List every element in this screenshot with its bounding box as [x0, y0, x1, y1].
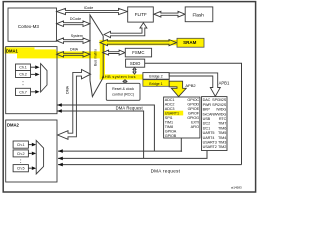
svg-text:Flash: Flash [192, 12, 204, 17]
svg-text:USART2: USART2 [203, 145, 217, 149]
bus matrix shape [90, 15, 103, 97]
svg-text:DMA1: DMA1 [6, 49, 19, 54]
svg-text:GPIOF: GPIOF [188, 112, 200, 116]
outer frame [3, 2, 255, 192]
arrow Ch.7 to arbiter [31, 91, 36, 93]
svg-text:DMA Request: DMA Request [116, 106, 144, 111]
DMA bus arrow (yellow) [57, 52, 90, 58]
svg-text:Bridge 1: Bridge 1 [149, 82, 162, 86]
svg-text:Ch.2: Ch.2 [19, 73, 27, 77]
svg-text:EXTI: EXTI [191, 121, 199, 125]
svg-text:SPI3/I2S: SPI3/I2S [212, 98, 227, 102]
svg-text:TIM1: TIM1 [165, 121, 173, 125]
DMA2 channel Ch.1 [13, 141, 28, 148]
Bridge 1 box (yellow) [143, 80, 169, 87]
SRAM box [177, 38, 204, 47]
svg-text:USB: USB [203, 117, 211, 121]
svg-text:UART5: UART5 [203, 131, 215, 135]
APB2 yellow elbow arrow from Bridge 1 [169, 81, 186, 96]
svg-text:ICode: ICode [84, 6, 94, 10]
svg-text:ADC2: ADC2 [165, 102, 175, 106]
highlighter stroke over DMA arrow [30, 49, 56, 56]
svg-text:Ch.5: Ch.5 [17, 167, 25, 171]
RCC to AHB small double arrow [123, 80, 126, 84]
APB1 pipe from Bridge 2 [169, 73, 220, 96]
ICode bus arrow [57, 8, 128, 14]
svg-text:DMA: DMA [66, 85, 70, 94]
DMA request line 2 (APB1 to DMA1) [57, 111, 144, 158]
svg-text:USART1: USART1 [165, 112, 179, 116]
USART1 highlight [164, 111, 183, 116]
svg-text:FSMC: FSMC [132, 50, 144, 55]
svg-text:Bridge 2: Bridge 2 [149, 75, 162, 79]
svg-text:GPIOG: GPIOG [187, 116, 199, 120]
DMA1 channel Ch.7 [16, 88, 31, 95]
DMA2 bus elbow arrow to bus matrix [58, 70, 91, 140]
svg-text:APB1: APB1 [219, 81, 230, 86]
svg-text:TIM8: TIM8 [165, 125, 173, 129]
svg-text:GPIOB: GPIOB [165, 134, 177, 138]
svg-text:Ch.1: Ch.1 [19, 66, 27, 70]
svg-text:SPI2/I2S: SPI2/I2S [212, 103, 227, 107]
svg-text:TIM3: TIM3 [218, 141, 226, 145]
svg-text:SRAM: SRAM [183, 40, 197, 45]
svg-text:GPIOA: GPIOA [165, 130, 177, 134]
arrow DMA2 Ch.2 to arbiter [28, 152, 31, 154]
SRAM yellow double arrow [100, 40, 177, 46]
svg-text:Ch.1: Ch.1 [17, 143, 25, 147]
DMA2 channel Ch.2 [13, 150, 28, 157]
svg-text:control (RCC): control (RCC) [112, 92, 134, 96]
Cortex-M3 box [8, 8, 57, 41]
FLITF box [128, 7, 154, 22]
svg-text:TIM5: TIM5 [218, 131, 226, 135]
line C: SDIO to DMA2 [58, 164, 242, 166]
svg-text:ADC3: ADC3 [165, 107, 175, 111]
svg-text:PWR: PWR [203, 103, 212, 107]
svg-text:UART4: UART4 [203, 136, 215, 140]
svg-text:APB2: APB2 [185, 83, 196, 88]
svg-text:Ch.2: Ch.2 [17, 152, 25, 156]
DMA1 channel Ch.1 [16, 64, 31, 71]
SDIO to AHB small double arrow [133, 68, 136, 75]
line B: APB1 to DMA2 [58, 151, 207, 159]
Bridge 2 box [143, 73, 169, 80]
highlighter stroke over DMA1 label [5, 47, 35, 53]
svg-text:I2C2: I2C2 [203, 122, 211, 126]
line A: APB2 to DMA2 [58, 138, 181, 151]
svg-text:DCode: DCode [70, 17, 81, 21]
DMA2 arbiter funnel [36, 140, 43, 174]
Reset & clock control box [106, 83, 140, 100]
APB1 peripherals box [202, 97, 228, 151]
svg-text:DMA: DMA [70, 47, 79, 51]
arrow Ch.1 to arbiter [31, 66, 36, 68]
svg-text:WWDG: WWDG [214, 112, 226, 116]
FSMC box [125, 48, 151, 57]
svg-text:Reset & clock: Reset & clock [112, 87, 134, 91]
FLITF-Flash double arrow [154, 11, 185, 17]
highlighter vertical band in bus matrix [100, 41, 105, 80]
svg-text:GPIOC: GPIOC [187, 98, 199, 102]
DMA1 arbiter funnel [41, 64, 47, 92]
svg-text:Bus matrix: Bus matrix [94, 49, 98, 66]
svg-text:TIM7: TIM7 [218, 122, 226, 126]
svg-text:USART3: USART3 [203, 141, 217, 145]
highlighter band to SRAM [100, 40, 178, 45]
svg-text:IWDG: IWDG [216, 108, 226, 112]
svg-text:SPI1: SPI1 [165, 116, 173, 120]
svg-text:TIM2: TIM2 [218, 145, 226, 149]
DMA2 channel Ch.5 [13, 165, 28, 172]
DMA2 box [6, 120, 57, 182]
highlighter band AHB system bus [100, 74, 144, 79]
svg-text:SDIO: SDIO [130, 61, 141, 66]
dots between channels [19, 158, 22, 161]
DCode elbow arrow to FLITF [104, 23, 147, 38]
APB2 peripherals box [164, 97, 200, 138]
svg-text:TIM6: TIM6 [218, 126, 226, 130]
SDIO box [126, 59, 145, 67]
DMA1 box [6, 47, 57, 114]
svg-text:System: System [71, 34, 83, 38]
svg-text:DMA request: DMA request [151, 169, 181, 174]
arrow DMA2 Ch.1 to arbiter [28, 144, 31, 146]
Flash box [185, 7, 213, 22]
svg-text:Ch.7: Ch.7 [19, 90, 27, 94]
svg-text:DMA2: DMA2 [7, 123, 20, 128]
DMA request line 1 (APB2 to DMA1) [57, 105, 154, 151]
arrow Ch.2 to arbiter [31, 73, 36, 75]
dots between channels [22, 80, 25, 83]
svg-text:RTC: RTC [219, 117, 227, 121]
svg-text:BKP: BKP [203, 108, 211, 112]
svg-text:ai14583: ai14583 [231, 186, 242, 190]
svg-text:Cortex-M3: Cortex-M3 [18, 24, 40, 29]
svg-text:TIM4: TIM4 [218, 136, 226, 140]
System bus arrow [57, 38, 90, 44]
svg-text:AHB system bus: AHB system bus [102, 74, 136, 79]
svg-text:bxCAN: bxCAN [203, 112, 215, 116]
svg-text:AFIO: AFIO [191, 125, 200, 129]
svg-text:GPIOD: GPIOD [187, 102, 199, 106]
svg-text:DAC: DAC [203, 98, 211, 102]
svg-text:ADC1: ADC1 [165, 98, 175, 102]
svg-text:I2C1: I2C1 [203, 126, 211, 130]
DCode bus arrow [57, 21, 90, 27]
DMA1 channel Ch.2 [16, 71, 31, 78]
FSMC double arrow [103, 50, 126, 55]
arrow DMA2 Ch.5 to arbiter [28, 167, 31, 169]
SDIO request line to right and down [145, 63, 242, 164]
svg-text:GPIOE: GPIOE [188, 107, 200, 111]
svg-text:FLITF: FLITF [135, 12, 147, 17]
